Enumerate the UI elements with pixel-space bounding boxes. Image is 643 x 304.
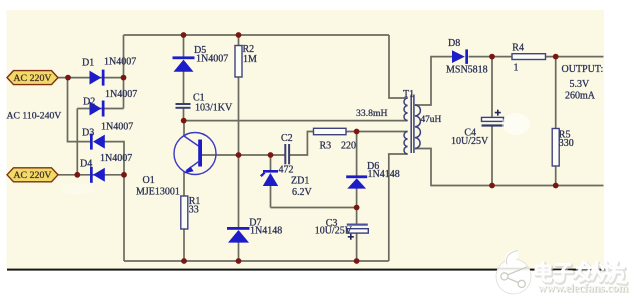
wire base rail [202,154,285,156]
diode D8 MSN5818 [452,49,468,64]
resistor R5 330 [552,129,559,167]
wire C3 column [356,208,358,262]
node D4 cathode junction [121,172,127,178]
node top rail D5 [181,32,187,38]
wire C4 column [491,57,493,186]
svg-text:D1: D1 [82,58,94,69]
node R3 D6 aux [354,129,360,135]
capacitor C4 10U/25V electrolytic [482,110,505,127]
resistor R4 1 [512,54,546,60]
watermark smudge near C4 [502,113,530,135]
svg-text:R4: R4 [512,42,524,53]
svg-text:D3: D3 [82,127,94,138]
wire R5 column [555,57,557,186]
wire C2 right to R3 [289,132,314,156]
svg-text:R3: R3 [320,141,332,152]
wire secondary top to D8 [415,57,452,105]
svg-text:D4: D4 [80,158,92,169]
svg-text:1N4007: 1N4007 [100,153,132,164]
svg-text:5.3V: 5.3V [570,79,591,90]
svg-text:6.2V: 6.2V [292,187,313,198]
wire R3 to T1 aux [346,131,408,133]
svg-text:10U/25V: 10U/25V [451,136,489,147]
svg-text:O1: O1 [143,175,155,186]
node base ZD1 C2 [268,152,274,158]
svg-text:AC 220V: AC 220V [13,73,52,84]
svg-text:330: 330 [559,138,574,149]
wire secondary bottom and output return [415,149,604,186]
capacitor C2 472 [284,144,290,164]
svg-text:260mA: 260mA [565,90,596,101]
zener ZD1 6.2V [260,170,278,186]
svg-text:ZD1: ZD1 [291,175,309,186]
svg-text:1N4007: 1N4007 [196,53,228,64]
wire top rail to T1 primary top [389,35,408,98]
node base R2 D7 [236,152,242,158]
node collector [181,118,187,124]
node return R5 [553,183,559,189]
wire emitter drop [183,171,185,196]
svg-text:1N4007: 1N4007 [104,56,136,67]
node rail C3 [354,258,360,264]
schematic sheet background [7,10,605,269]
svg-text:220: 220 [341,141,356,152]
svg-text:1N4148: 1N4148 [368,169,400,180]
wire ZD1 column and bottom link [271,155,357,208]
svg-text:1M: 1M [243,54,257,65]
node R4 R5 output [553,54,559,60]
svg-text:33.8mH: 33.8mH [356,108,387,119]
resistor R3 220 [314,128,347,134]
diode D7 1N4148 [227,227,250,243]
diode D1 1N4007 [90,70,105,86]
wire D1 row [58,77,124,79]
svg-text:1N4007: 1N4007 [101,121,133,132]
wire R4 to output [546,56,604,58]
wire D4 row [58,174,124,176]
diode D6 1N4148 [346,175,367,188]
capacitor C1 103/1KV [176,103,191,109]
wire left vertical D1-D2 cathodes [123,35,125,109]
diode D4 1N4007 [90,167,105,183]
svg-text:MJE13001: MJE13001 [136,186,180,197]
transistor O1 MJE13001 [174,133,216,175]
svg-text:472: 472 [279,164,294,175]
svg-text:T1: T1 [403,89,414,100]
wire bottom rail [124,260,389,262]
node emitter rail R1 [181,258,187,264]
wire D7 column [238,155,240,261]
svg-text:47uH: 47uH [421,115,442,125]
node D8 C4 [489,54,495,60]
wire primary return [389,154,408,261]
node rail D7 [236,258,242,264]
svg-text:1N4148: 1N4148 [250,225,282,236]
diode D5 1N4007 snubber [173,56,195,71]
node ZD1 D6 C3 [354,205,360,211]
node AC2 junction [74,172,80,178]
resistor R1 33 [181,196,188,229]
port flag AC 220V top [7,71,58,85]
transformer T1 [404,95,420,155]
svg-text:1N4007: 1N4007 [105,89,137,100]
wire R2 column [238,35,240,155]
node return C4 [489,183,495,189]
svg-text:103/1KV: 103/1KV [195,103,233,114]
wire top rail [124,34,390,36]
wire line B D2 anode to AC2 [76,109,78,175]
wire snubber column D5 C1 [183,35,185,121]
wire D6 column [356,132,358,208]
wire D8 to R4 [469,56,512,58]
watermark logo circle [496,250,531,294]
wire D3 row to D4 junction [105,142,125,175]
watermark smudge left [62,183,94,195]
svg-text:OUTPUT:: OUTPUT: [562,64,604,75]
svg-text:33: 33 [189,204,199,215]
diode D2 1N4007 [90,101,105,117]
port flag AC 220V bottom [7,168,58,182]
svg-text:10U/25V: 10U/25V [315,226,353,237]
svg-text:www.elecfans.com: www.elecfans.com [538,281,628,295]
wire collector drop [183,121,185,136]
svg-text:AC 110-240V: AC 110-240V [7,110,62,121]
watermark url [538,281,629,296]
svg-text:1: 1 [514,62,519,73]
svg-text:AC 220V: AC 220V [13,170,52,181]
wire line A AC1 to D3 cathode [68,78,93,142]
node top rail R2 [236,32,242,38]
wire D2 row [77,108,123,110]
svg-text:D8: D8 [448,38,460,49]
svg-text:C2: C2 [281,133,293,144]
svg-text:D2: D2 [83,96,95,107]
watermark chinese characters [536,262,626,282]
diode D3 1N4007 [90,134,105,150]
node AC1 junction [65,75,71,81]
svg-text:MSN5818: MSN5818 [446,65,488,76]
wire left bottom vertical [123,175,125,261]
capacitor C3 10U/25V electrolytic [347,224,369,240]
resistor R2 1M [235,46,242,78]
wire R1 bottom [183,229,185,261]
wire collector rail to T1 [184,120,408,122]
watermark chinese characters halo [537,263,627,283]
node D1 cathode junction [121,75,127,81]
sheet bottom border line [7,269,608,271]
